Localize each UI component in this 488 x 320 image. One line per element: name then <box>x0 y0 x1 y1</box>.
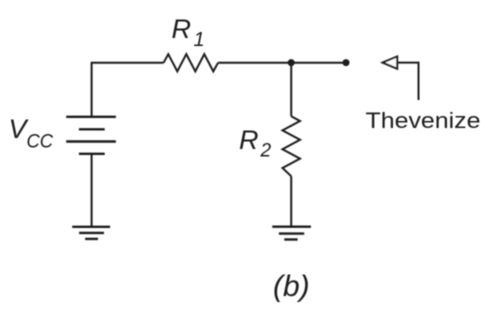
wire top horizontal left segment <box>92 62 164 64</box>
arrowhead (open, pointing left) <box>383 57 398 69</box>
ground (left) <box>72 227 110 239</box>
svg-text:2: 2 <box>260 141 272 162</box>
resistor R2 <box>283 116 301 176</box>
svg-text:Thevenize: Thevenize <box>366 108 481 133</box>
node end terminal dot <box>343 59 350 66</box>
wire arrow horizontal <box>397 62 418 64</box>
ground (right) <box>272 227 311 240</box>
battery VCC plates <box>66 117 116 154</box>
svg-text:R: R <box>172 14 192 44</box>
svg-text:R: R <box>239 125 259 155</box>
svg-text:(b): (b) <box>273 270 310 303</box>
wire node to R2 <box>290 63 292 117</box>
wire left vertical <box>91 62 93 117</box>
svg-text:CC: CC <box>27 131 54 152</box>
wire top horizontal right segment <box>218 62 346 64</box>
svg-text:1: 1 <box>194 29 205 51</box>
wire R2 to ground <box>290 176 292 227</box>
node junction dot <box>288 59 295 66</box>
wire battery to ground <box>91 154 93 227</box>
wire arrow vertical <box>418 62 420 100</box>
resistor R1 <box>164 54 219 71</box>
